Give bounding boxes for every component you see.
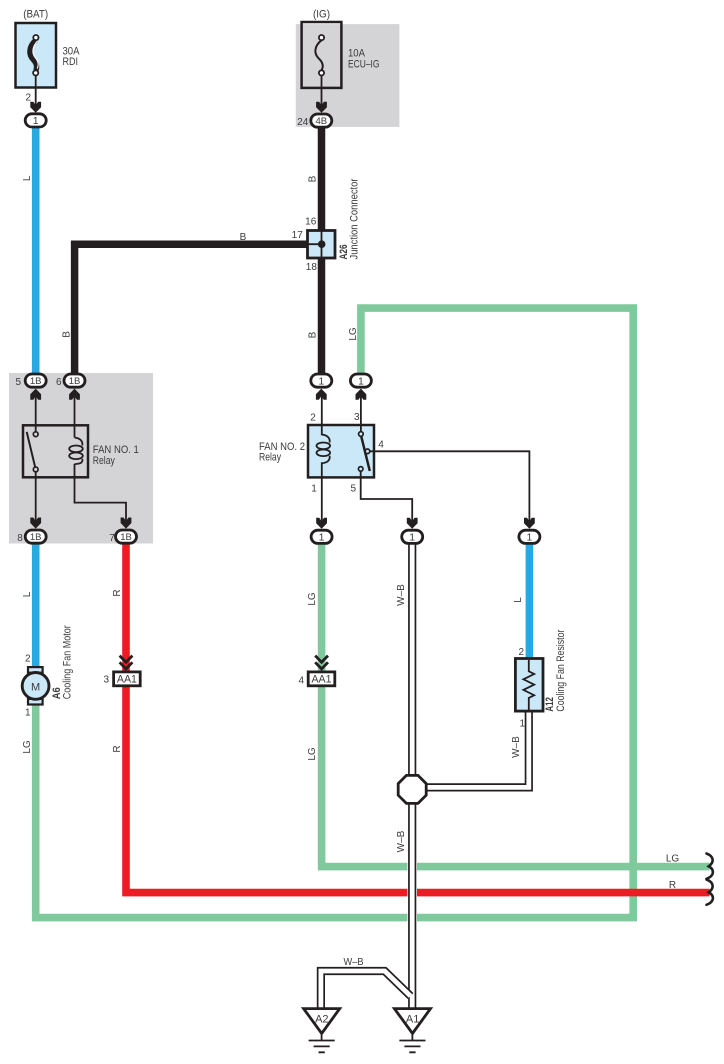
svg-text:ECU–IG: ECU–IG [348,58,380,70]
motor A6 body [22,673,49,700]
relay1 switch contacts and blade [27,432,36,467]
svg-text:LG: LG [22,740,33,754]
svg-text:Cooling Fan Resistor: Cooling Fan Resistor [555,629,567,711]
thin wires inside junction connector [308,231,322,259]
wire L (blue) relay2 pin 4 to resistor pin 2 [526,543,534,660]
ground A1 triangle [394,1009,430,1034]
svg-text:4: 4 [378,439,384,450]
svg-text:3: 3 [354,412,360,423]
svg-text:5: 5 [350,484,356,495]
svg-text:LG: LG [307,592,318,606]
svg-text:W–B: W–B [344,957,364,968]
wire R (red) connector AA1 to right edge continuation [126,686,710,893]
svg-text:AA1: AA1 [312,674,332,686]
resistor A12 body [515,659,543,712]
relay2 box [308,425,374,477]
svg-text:L: L [513,597,524,603]
relay1 top connector oval pin 5 (1B) [25,374,46,387]
shaded block ECU-IG fuse area [296,24,400,127]
svg-text:1: 1 [409,532,415,544]
relay1 internal wire pin5 to switch [35,392,37,432]
svg-text:Relay: Relay [259,452,281,464]
relay2 top connector oval pin 3 [350,374,371,387]
wire fuse ECU-IG pin 24 lead [321,76,323,110]
arrow into connector 1 (down) [30,102,41,113]
svg-text:LG: LG [666,854,680,865]
wire LG (green) connector AA1 to right edge continuation [322,686,710,867]
svg-text:RDI: RDI [63,56,79,68]
wire B (black) junction connector to relay1 pin 6 [75,244,308,374]
svg-text:1: 1 [311,484,317,495]
relay1 top connector oval pin 6 (1B) [64,374,85,387]
svg-text:4B: 4B [315,116,327,127]
svg-text:1: 1 [526,532,532,544]
wire B (black) fuse ECU-IG down through junction connector to relay2 pin 2 [318,127,326,375]
fuse 10A ECU-IG element (thin S) [315,40,322,70]
svg-text:6: 6 [56,377,62,388]
svg-text:LG: LG [307,747,318,761]
svg-text:1B: 1B [30,376,42,387]
svg-text:7: 7 [109,533,115,544]
continuation squiggle LG right edge [707,854,713,879]
wire R (red) relay1 pin7 to connector AA1 pin 3 [122,543,130,673]
svg-text:1: 1 [519,719,525,730]
svg-text:Cooling Fan Motor: Cooling Fan Motor [61,625,73,699]
wire LG (green) loop: relay2 pin3 up, right side down, bottom to motor pin 1 [36,308,634,918]
splice octagon W-B junction [398,775,426,803]
svg-text:W–B: W–B [511,736,522,758]
svg-text:24: 24 [297,117,309,128]
svg-text:18: 18 [306,262,318,273]
connector AA1 on red wire: box [114,672,141,686]
connector oval 1 (RDI output) [25,114,46,127]
svg-text:1: 1 [33,115,39,127]
svg-text:2: 2 [25,653,31,664]
svg-text:1: 1 [358,375,364,387]
ground A1 hatching [399,1034,425,1053]
svg-text:B: B [61,331,72,338]
svg-text:L: L [22,175,33,181]
relay1 bottom connector oval pin 7 (1B) [116,530,137,543]
arrow up into relay2 pin3 oval [356,389,367,400]
relay2 switch blade and contacts [361,436,370,471]
svg-text:2: 2 [518,647,524,658]
svg-text:B: B [308,175,319,182]
svg-text:Relay: Relay [93,455,115,467]
svg-text:W–B: W–B [396,830,407,852]
svg-text:B: B [240,232,247,243]
svg-text:A1: A1 [406,1014,419,1026]
svg-text:2: 2 [25,93,31,104]
svg-text:3: 3 [103,674,109,685]
arrow up into oval 6 [69,389,80,400]
fuse 30A RDI body [16,23,57,88]
svg-text:8: 8 [17,533,23,544]
arrow down into relay2 pin4 oval [524,518,535,529]
svg-text:B: B [308,331,319,338]
fuse 30A RDI element (bold S) [30,40,37,71]
svg-text:1B: 1B [30,532,42,543]
svg-text:17: 17 [292,230,304,241]
wire fuse RDI pin 2 lead [35,76,37,110]
svg-text:R: R [669,880,676,891]
svg-text:16: 16 [305,217,317,228]
svg-text:A2: A2 [315,1014,328,1026]
svg-text:R: R [112,745,123,752]
relay2 wire pin3 above box [360,392,362,432]
svg-text:1: 1 [319,532,325,544]
continuation squiggle R right edge [707,880,713,905]
arrow up into relay2 pin2 oval [316,389,327,400]
svg-text:M: M [31,681,40,693]
svg-text:5: 5 [15,377,21,388]
svg-text:Junction Connector: Junction Connector [349,178,361,259]
svg-text:(BAT): (BAT) [23,9,48,21]
relay1 coil wire from pin6 [74,392,76,438]
relay2 wire pin4 to oval [370,451,530,525]
arrow into connector 4B (down) [316,102,327,113]
relay2 wire pin2 above box [321,392,323,434]
relay2 bottom connector oval pin 5 [402,530,423,543]
arrow down into oval 7 [121,518,132,529]
arrow up into oval 5 [30,389,41,400]
svg-text:AA1: AA1 [117,674,137,686]
svg-text:R: R [112,589,123,596]
svg-text:1B: 1B [69,376,81,387]
junction connector A26 box [308,231,336,259]
junction dot A26 [318,240,326,248]
relay2 wire pin5 to oval [361,477,413,525]
wire W-B splice octagon to ground A1 (double line, crosses colored wires) [407,800,417,1009]
connector AA1 on green wire: double chevron [315,656,328,669]
svg-text:W–B: W–B [396,584,407,606]
svg-text:(IG): (IG) [313,9,330,21]
wire LG (green) relay2 pin1 to connector AA1 pin 4 [318,543,326,673]
relay2 top connector oval pin 2 [311,374,332,387]
shaded block FAN NO.1 relay area [9,373,153,544]
svg-text:2: 2 [310,413,316,424]
relay2 bottom connector oval pin 4 [519,530,540,543]
fuse 10A ECU-IG body [302,22,342,88]
ground A2 hatching [309,1034,335,1053]
svg-text:L: L [22,591,33,597]
connector AA1 on green wire: box [308,672,335,686]
wire W-B relay2 pin5 to splice octagon (double line) [408,543,416,778]
wire L (blue) relay1 pin 8 to motor pin 2 [32,543,40,668]
ground A2 triangle [304,1009,340,1034]
wire W-B resistor pin1 to splice octagon (double line) [420,711,529,787]
relay2 coil [322,425,330,443]
wire L (blue) fuse RDI to relay1 pin 5 [32,127,40,375]
connector AA1 on red wire: double chevron [120,656,133,669]
arrow down into relay2 pin1 oval [316,518,327,529]
relay1 coil [75,438,83,446]
svg-text:4: 4 [298,676,304,687]
resistor A12 zigzag element [523,660,534,710]
relay1 bottom connector oval pin 8 (1B) [25,530,46,543]
relay1 internal wire switch to pin8 [35,472,37,525]
svg-text:LG: LG [348,327,359,341]
svg-text:1B: 1B [120,532,132,543]
relay2 bottom connector oval pin 1 [311,530,332,543]
wire W-B branch to ground A2 (double line) [321,971,411,1009]
relay1 wire coil to pin 7 [75,464,127,525]
arrow down into oval 8 [30,518,41,529]
motor A6 top terminal [28,667,43,673]
arrow down into relay2 pin5 oval [407,518,418,529]
svg-text:1: 1 [25,707,31,718]
connector oval 4B [311,114,332,127]
relay1 box [23,425,88,477]
motor A6 bottom terminal [28,699,43,705]
svg-text:1: 1 [318,375,324,387]
